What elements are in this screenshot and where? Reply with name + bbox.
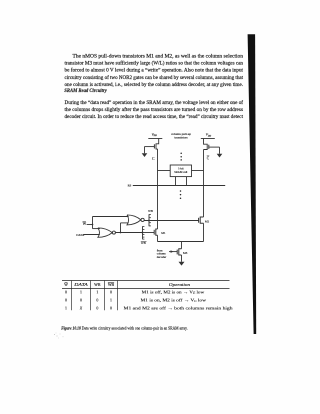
- ground below M3: [179, 262, 185, 266]
- svg-text:WB: WB: [94, 283, 101, 287]
- wire cell word-line stub right: [186, 177, 188, 186]
- svg-text:0: 0: [65, 290, 67, 294]
- svg-text:0: 0: [96, 306, 98, 310]
- svg-text:RS: RS: [128, 184, 132, 188]
- wire common source bus: [158, 241, 204, 243]
- svg-text:Operation: Operation: [169, 282, 190, 287]
- svg-text:WB: WB: [108, 283, 115, 287]
- 1-bit SRAM cell box U1: [170, 165, 191, 177]
- wire cell word-line stub left: [175, 177, 177, 186]
- wire cell to column C: [158, 170, 171, 172]
- svg-text:0: 0: [96, 298, 98, 302]
- svg-text:WB: WB: [141, 241, 146, 245]
- svg-text:0: 0: [65, 298, 67, 302]
- svg-text:Figure 10.18 Data write circu: Figure 10.18 Data write circuitry associ…: [61, 325, 188, 330]
- svg-text:1: 1: [65, 306, 67, 310]
- ellipsis dots above SRAM cell: [180, 153, 182, 155]
- wire column Cbar below M2: [203, 223, 205, 241]
- svg-text:transistor M3 must have suffic: transistor M3 must have sufficiently lar…: [65, 60, 244, 67]
- wire Wbar branch vertical: [92, 217, 94, 229]
- WBbar continuation tick symbol: [142, 226, 144, 239]
- pull-up transistor right (depletion load): [204, 139, 208, 150]
- transistor M2: [200, 217, 203, 223]
- WB continuation tick symbol: [148, 214, 150, 226]
- svg-text:1: 1: [80, 290, 82, 294]
- svg-text:W: W: [64, 282, 68, 287]
- wire column Cbar (right): [203, 150, 205, 218]
- wire WB from NOR1 to M2 gate: [144, 220, 198, 222]
- wire Wbar to NOR2 top input: [93, 228, 100, 230]
- wire cell to column Cbar: [192, 170, 204, 172]
- wire Wbar to NOR1 top input: [93, 216, 129, 218]
- ground right pull-up: [217, 154, 223, 158]
- wire decoder to M3 gate with arrow: [169, 251, 177, 253]
- pull-up transistor left (depletion load): [156, 139, 159, 150]
- svg-text:transistors: transistors: [174, 135, 188, 139]
- truth table: [62, 280, 230, 282]
- ground left pull-up: [142, 153, 148, 157]
- svg-text:DATA: DATA: [73, 283, 89, 287]
- VDD rail left: [148, 138, 162, 140]
- svg-text:WB: WB: [148, 209, 153, 213]
- wire WBbar feedback vertical: [120, 223, 122, 233]
- junction Wbar branch: [92, 224, 94, 226]
- junction WBbar branch: [120, 232, 122, 234]
- svg-text:0: 0: [80, 298, 82, 302]
- svg-text:SRAM Read Circuitry: SRAM Read Circuitry: [64, 88, 107, 94]
- svg-text:decoder: decoder: [157, 255, 167, 259]
- wire M3 source to ground: [181, 255, 183, 262]
- NOR gate G2 (lower NOR2): [98, 228, 112, 237]
- svg-text:SRAM cell: SRAM cell: [174, 170, 187, 174]
- wire WBbar to M1 gate: [143, 232, 155, 234]
- transistor M1: [156, 229, 158, 235]
- svg-text:1: 1: [110, 298, 112, 302]
- wire Wbar input: [87, 224, 93, 226]
- svg-text:M1 and M2 are off → both colum: M1 and M2 are off → both columns remain …: [124, 305, 233, 310]
- svg-text:0: 0: [110, 290, 112, 294]
- wire DATA input to NOR2: [83, 234, 99, 236]
- wire row select word line: [133, 185, 225, 187]
- svg-text:0: 0: [110, 306, 112, 310]
- wire column C (left): [157, 149, 159, 229]
- VDD rail right: [201, 138, 215, 140]
- svg-text:1: 1: [96, 290, 98, 294]
- ellipsis dots below SRAM cell: [180, 190, 182, 192]
- svg-text:During the “data read” operati: During the “data read” operation in the …: [65, 99, 244, 106]
- svg-text:M2: M2: [205, 219, 210, 223]
- svg-text:The nMOS pull-down transistors: The nMOS pull-down transistors M1 and M2…: [73, 53, 244, 59]
- svg-text:be forced to almost 0 V level: be forced to almost 0 V level during a “…: [65, 67, 244, 74]
- svg-text:M1: M1: [161, 231, 166, 235]
- svg-text:circuitry consisting of two NO: circuitry consisting of two NOR2 gates c…: [65, 74, 244, 81]
- wire column C below M1: [157, 235, 159, 241]
- wire NOR2 output WBbar: [115, 232, 142, 234]
- wire WBbar to NOR1 bottom input: [121, 222, 129, 224]
- svg-text:the columns drops slightly aft: the columns drops slightly after the pas…: [65, 106, 244, 113]
- svg-text:decoder circuit. In order to r: decoder circuit. In order to reduce the …: [65, 113, 244, 120]
- transistor M3 column select: [179, 249, 182, 255]
- wire bus to M3 drain: [181, 242, 183, 249]
- svg-text:M3: M3: [183, 251, 188, 255]
- svg-text:one column is activated, i.e.,: one column is activated, i.e., selected …: [65, 82, 244, 88]
- scanned page edge dark bar: [248, 34, 257, 334]
- NOR gate G1 (upper NOR2): [127, 215, 141, 225]
- svg-text:W: W: [83, 222, 87, 226]
